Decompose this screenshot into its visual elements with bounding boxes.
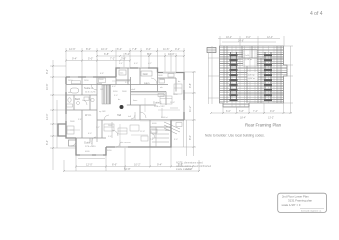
interior dimension leaders: [70, 81, 180, 140]
svg-text:7'-2": 7'-2": [253, 110, 258, 113]
svg-text:2668: 2668: [99, 79, 104, 81]
svg-text:8'-6": 8'-6": [112, 163, 117, 167]
svg-text:12'0 x 14'0: 12'0 x 14'0: [85, 146, 96, 148]
room label Suite 3 (top-left room): [84, 86, 96, 93]
svg-text:2468: 2468: [158, 75, 163, 77]
svg-text:10'-2": 10'-2": [226, 36, 232, 39]
left dimension line: [50, 60, 76, 170]
svg-text:8'-2": 8'-2": [45, 69, 49, 74]
svg-text:9'-2": 9'-2": [175, 47, 180, 51]
svg-text:2668: 2668: [122, 91, 127, 93]
svg-text:5'-8": 5'-8": [239, 110, 244, 113]
svg-text:Suite 3: Suite 3: [84, 86, 93, 90]
closet shelf hatch (right of center): [131, 92, 165, 96]
svg-text:6'-8": 6'-8": [100, 73, 104, 75]
svg-text:9'-6": 9'-6": [270, 110, 275, 113]
svg-text:12'-8": 12'-8": [140, 131, 145, 133]
svg-text:14'0 x 13'2: 14'0 x 13'2: [154, 106, 165, 108]
svg-text:up 16R: up 16R: [99, 111, 106, 113]
svg-text:5'-0": 5'-0": [88, 57, 93, 61]
svg-text:14R: 14R: [100, 89, 104, 91]
svg-text:12'-6": 12'-6": [69, 47, 76, 51]
extra fixture marks: [67, 74, 182, 148]
svg-text:2650: 2650: [84, 80, 89, 82]
svg-text:Laun.: Laun.: [144, 82, 150, 85]
svg-text:9'-4": 9'-4": [72, 57, 77, 61]
svg-text:dn: dn: [178, 81, 180, 83]
svg-text:10'-2": 10'-2": [134, 163, 141, 167]
svg-text:10'-4": 10'-4": [101, 47, 108, 51]
svg-text:5040 sl: 5040 sl: [161, 117, 168, 119]
vanity: [67, 104, 73, 107]
svg-text:2x8 hip: 2x8 hip: [248, 75, 255, 77]
svg-text:11'-6": 11'-6": [163, 47, 169, 51]
interior walls: [66, 68, 184, 147]
svg-text:scale 1/16" = 1': scale 1/16" = 1': [282, 203, 302, 207]
porch deck lines bottom-right: [152, 127, 169, 147]
label box (closet) top-left: [72, 81, 81, 84]
svg-text:5'-0": 5'-0": [108, 136, 112, 138]
svg-text:Note to builder: Use local bui: Note to builder: Use local building code…: [205, 134, 265, 138]
toilet: [68, 98, 71, 102]
svg-text:Bath: Bath: [75, 98, 81, 101]
svg-text:Rear Framing Plan: Rear Framing Plan: [245, 123, 282, 128]
dark column / flue at stair: [120, 105, 124, 109]
svg-text:9'-8": 9'-8": [188, 83, 192, 88]
title block: [278, 193, 327, 212]
svg-text:shelf: shelf: [131, 89, 136, 91]
svg-text:@24"oc: @24"oc: [248, 78, 255, 80]
svg-text:licensed engineer co.: licensed engineer co.: [301, 209, 322, 212]
svg-text:2650: 2650: [173, 94, 178, 96]
room label Suite 2 (bottom): [84, 141, 96, 148]
svg-text:18'-4": 18'-4": [240, 117, 246, 120]
outer walls of main floor plan: [58, 68, 184, 155]
door swing arcs: [71, 78, 157, 146]
svg-text:5'-0": 5'-0": [125, 52, 130, 56]
svg-text:6'-8": 6'-8": [104, 52, 109, 56]
svg-text:2x10: 2x10: [245, 55, 251, 57]
top dimension lines: [66, 48, 184, 77]
svg-text:4030: 4030: [152, 123, 157, 125]
white clearing with text (roof): [243, 50, 257, 66]
svg-text:Suite 1: Suite 1: [153, 101, 162, 105]
svg-text:3'-4": 3'-4": [119, 63, 123, 65]
bathroom fixtures: tub top-left: [71, 88, 79, 93]
bottom dimension lines: [64, 147, 199, 171]
svg-text:4 of 4: 4 of 4: [310, 11, 323, 17]
svg-text:3'-0": 3'-0": [174, 139, 178, 141]
svg-text:2668: 2668: [108, 125, 113, 127]
svg-text:3131 Framing plan: 3131 Framing plan: [288, 199, 312, 203]
svg-text:linen: linen: [133, 100, 137, 102]
svg-text:7'-4": 7'-4": [150, 139, 154, 141]
svg-text:6'-0": 6'-0": [88, 133, 92, 135]
svg-text:10'-6": 10'-6": [45, 83, 49, 90]
svg-text:13'-6": 13'-6": [170, 102, 175, 104]
svg-text:4030: 4030: [85, 151, 90, 153]
svg-text:@16"oc: @16"oc: [245, 59, 254, 61]
roof rafter verticals (light): [232, 46, 279, 107]
svg-text:hall: hall: [128, 116, 132, 118]
svg-text:3'-0": 3'-0": [114, 95, 118, 97]
svg-text:7'-8": 7'-8": [132, 47, 137, 51]
stair treads (center): [102, 85, 111, 104]
left dimension texts: [45, 69, 49, 145]
small stair diagonal bottom-right: [164, 122, 180, 134]
dark beam ladder 2: [265, 52, 271, 101]
svg-text:3'-2": 3'-2": [96, 127, 100, 129]
roof bottom dimension lines: [211, 103, 292, 113]
svg-text:13'-2": 13'-2": [268, 117, 274, 120]
roof left dimension lines: [208, 46, 220, 104]
svg-text:24'-6": 24'-6": [238, 40, 244, 43]
legend box top-left of roof plan: [207, 48, 216, 53]
top dimension tick marks: [65, 50, 185, 62]
right dimension line: [171, 72, 196, 156]
svg-text:Hall: Hall: [117, 114, 122, 117]
chimney stub left of suite2: [69, 140, 77, 146]
suite1 bed + closet marks: [104, 84, 182, 131]
svg-text:9'-0": 9'-0": [246, 36, 251, 39]
misc tiny annotations: [68, 63, 180, 153]
svg-text:4'-0": 4'-0": [112, 86, 116, 88]
roof top dimension lines: [218, 36, 284, 46]
suite2 closet divider: [90, 138, 97, 142]
svg-text:7'-2": 7'-2": [110, 57, 115, 61]
svg-text:6'-0": 6'-0": [226, 110, 231, 113]
svg-text:wh: wh: [160, 87, 163, 89]
svg-text:6'-4": 6'-4": [45, 140, 49, 145]
bonus room marks: [118, 128, 148, 141]
window hatch bottom-right room: [140, 119, 183, 121]
svg-text:11'4 x 12'6: 11'4 x 12'6: [85, 91, 96, 93]
svg-text:4'-2": 4'-2": [148, 63, 152, 65]
svg-text:10'-0": 10'-0": [168, 52, 175, 56]
top dimension texts: [69, 47, 180, 61]
svg-text:W.I.C.: W.I.C.: [85, 114, 92, 117]
svg-text:2668: 2668: [70, 121, 75, 123]
svg-text:9'-0": 9'-0": [146, 47, 151, 51]
svg-text:3050: 3050: [113, 91, 118, 93]
svg-text:5'-6": 5'-6": [78, 119, 82, 121]
svg-text:8'-6": 8'-6": [147, 52, 152, 56]
svg-text:3050: 3050: [107, 150, 112, 152]
svg-text:12'-0": 12'-0": [86, 163, 93, 167]
svg-text:12'-4": 12'-4": [267, 36, 273, 39]
svg-text:9'-4": 9'-4": [157, 163, 162, 167]
window openings (white gaps + thin sill lines) on outer walls: [66, 68, 184, 155]
svg-text:12'-0": 12'-0": [45, 113, 49, 120]
svg-text:3'-6": 3'-6": [121, 57, 126, 61]
left dimension ticks: [52, 65, 54, 149]
svg-text:inside material: inside material: [176, 168, 192, 171]
sink right room: [158, 94, 164, 97]
svg-text:6'-0": 6'-0": [134, 63, 138, 65]
svg-text:52'-8": 52'-8": [124, 167, 131, 171]
svg-text:clos: clos: [120, 72, 124, 74]
svg-text:8'-0": 8'-0": [86, 47, 91, 51]
dark beam ladder 1: [231, 52, 237, 101]
closet small box top middle: [119, 70, 126, 75]
note: dimensions (3 lines, right of bottom dims): [176, 162, 212, 172]
lower clearing texts: [247, 72, 258, 81]
svg-text:5'-2": 5'-2": [125, 82, 129, 84]
svg-text:attic access: attic access: [120, 141, 130, 144]
svg-text:6'-2": 6'-2": [117, 47, 122, 51]
room label Suite 1 (right): [153, 101, 165, 108]
svg-text:11'-2": 11'-2": [188, 106, 192, 112]
svg-text:dn: dn: [118, 99, 120, 101]
svg-text:8'-0": 8'-0": [188, 135, 192, 140]
roof interior beams: [220, 46, 284, 103]
